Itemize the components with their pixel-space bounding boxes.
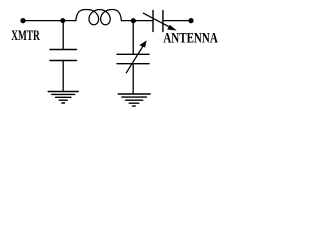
variable capacitor C2 top plate bbox=[117, 53, 149, 55]
wire: variable capacitor C2 to ground bbox=[132, 64, 134, 94]
wire: junction A down to capacitor C1 bbox=[62, 21, 64, 49]
variable capacitor C2 bottom plate bbox=[117, 63, 149, 65]
wire: XMTR terminal to junction A bbox=[23, 20, 76, 22]
variable capacitor C3 right plate bbox=[162, 11, 164, 32]
wire: coil to junction B bbox=[121, 20, 153, 22]
wire: series capacitor to ANTENNA terminal bbox=[163, 20, 191, 22]
capacitor C1 bottom plate bbox=[50, 60, 77, 62]
svg-text:XMTR: XMTR bbox=[11, 28, 40, 44]
variable capacitor C2 arrow bbox=[126, 41, 146, 73]
wire: junction B down to variable capacitor C2 bbox=[132, 21, 134, 54]
terminal ANTENNA bbox=[188, 18, 193, 23]
variable capacitor C3 (series) left plate bbox=[152, 11, 154, 32]
capacitor C1 top plate bbox=[50, 49, 77, 51]
terminal XMTR bbox=[20, 18, 25, 23]
variable capacitor C3 arrow bbox=[143, 13, 176, 30]
node B junction dot bbox=[131, 18, 136, 23]
node A junction dot bbox=[60, 18, 65, 23]
wire: capacitor C1 to ground bbox=[62, 61, 64, 92]
ground (right) bbox=[118, 94, 150, 106]
ground (left) bbox=[48, 92, 78, 104]
svg-text:ANTENNA: ANTENNA bbox=[163, 30, 218, 47]
inductor L1 coil bbox=[76, 9, 122, 24]
